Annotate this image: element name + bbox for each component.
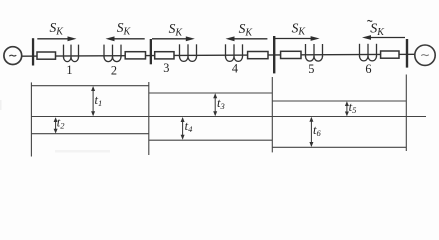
signal arrow S_K section 5: [275, 36, 320, 41]
coil 5 (HF trap): [306, 44, 323, 61]
signal arrow S_K section 3: [152, 36, 195, 41]
busbar 3: [273, 36, 275, 73]
dimension arrow t1: [91, 86, 95, 116]
generator G1 (left AC source): [4, 47, 22, 65]
svg-text:6: 6: [365, 62, 371, 76]
svg-text:5: 5: [308, 62, 314, 76]
time step line t4 (section 2 lower): [149, 139, 272, 141]
signal arrow S_K section 4: [226, 36, 268, 41]
wire main line (left source to right source): [22, 54, 416, 56]
svg-text:4: 4: [232, 61, 238, 75]
busbar 1: [32, 38, 34, 65]
vertical drop line from busbar 3: [271, 77, 273, 152]
time step line t6 (section 3 lower): [272, 146, 406, 148]
signal arrow S_K section 2: [106, 36, 145, 41]
busbar 4: [406, 39, 408, 68]
coil 6 (HF trap): [360, 44, 377, 61]
time step line t1 (section 1 upper): [31, 85, 148, 87]
dimension arrow t5: [345, 101, 349, 116]
background paper: [0, 0, 439, 168]
vertical drop line from busbar 1: [30, 82, 32, 156]
protection set 6 (rectangle): [381, 51, 399, 58]
protection set 4 (rectangle): [248, 52, 268, 59]
dimension arrow t6: [309, 117, 313, 147]
label ~S_K section 6: [367, 20, 385, 38]
time step line t5 (section 3 upper): [272, 100, 406, 102]
signal arrow S_K section 6: [362, 35, 405, 40]
protection set 2 (rectangle): [125, 52, 145, 59]
protection set 1 (rectangle): [37, 52, 56, 59]
vertical drop line from busbar 2: [148, 82, 150, 155]
coil 1 (HF trap): [64, 45, 79, 62]
dimension arrow t2: [54, 117, 58, 133]
svg-text:3: 3: [163, 61, 169, 75]
time axis baseline: [31, 116, 426, 118]
scan smudge left edge: [0, 100, 2, 110]
svg-text:2: 2: [111, 63, 117, 77]
protection set 3 (rectangle): [155, 52, 174, 59]
coil 3 (HF trap): [180, 44, 197, 61]
scan smudge below t2 area: [55, 150, 110, 153]
dimension arrow t4: [181, 117, 185, 140]
svg-text:1: 1: [66, 63, 72, 77]
time step line t3 (section 2 upper): [149, 92, 272, 94]
busbar 2: [150, 39, 152, 64]
protection set 5 (rectangle): [281, 51, 301, 58]
coil 2 (HF trap): [104, 45, 121, 62]
vertical drop line from busbar 4: [405, 75, 407, 152]
generator G2 (right AC source): [415, 45, 435, 65]
signal arrow S_K section 1: [37, 36, 76, 41]
time step line t2 (section 1 lower): [31, 133, 148, 135]
coil 4 (HF trap): [226, 44, 243, 61]
dimension arrow t3: [213, 93, 217, 116]
